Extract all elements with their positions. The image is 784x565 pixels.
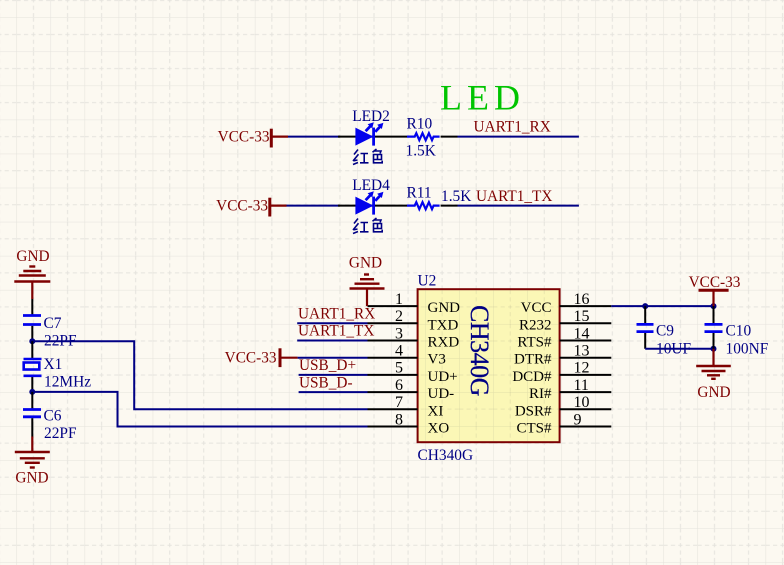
svg-text:DTR#: DTR# (514, 352, 552, 368)
svg-text:GND: GND (15, 470, 48, 487)
svg-text:3: 3 (395, 325, 403, 342)
wire (287, 205, 341, 207)
svg-text:14: 14 (574, 325, 590, 342)
pin 9 (516, 411, 611, 436)
svg-text:C7: C7 (44, 315, 62, 332)
svg-text:VCC-33: VCC-33 (216, 198, 268, 215)
svg-text:R232: R232 (519, 317, 552, 333)
svg-text:USB_D-: USB_D- (299, 374, 353, 391)
svg-text:GND: GND (697, 384, 730, 401)
svg-text:VCC: VCC (521, 300, 552, 316)
svg-text:DSR#: DSR# (515, 403, 552, 419)
capacitor C9 (637, 324, 654, 331)
svg-text:R11: R11 (407, 184, 432, 201)
pin 3 (368, 325, 460, 350)
svg-text:CTS#: CTS# (516, 421, 552, 437)
svg-text:LED: LED (440, 77, 525, 117)
svg-text:11: 11 (574, 377, 589, 394)
junction node (29, 338, 35, 344)
pin 14 (517, 325, 611, 350)
pin 7 (368, 394, 444, 419)
svg-text:GND: GND (428, 300, 461, 316)
svg-text:8: 8 (395, 411, 403, 428)
junction node (29, 389, 35, 395)
ground GND (bottom left) (15, 437, 50, 487)
pin 2 (368, 308, 459, 333)
ground GND (top left) (14, 248, 50, 299)
junction node at C10 (711, 303, 717, 309)
wire / pin to C7 (31, 299, 33, 315)
capacitor C9 pins (644, 306, 646, 349)
svg-text:RI#: RI# (529, 386, 552, 402)
svg-text:UART1_TX: UART1_TX (476, 188, 552, 205)
svg-text:UD-: UD- (428, 386, 455, 402)
pin 6 (368, 377, 455, 402)
svg-text:9: 9 (574, 411, 582, 428)
junction node at C9 (642, 303, 648, 309)
svg-text:LED4: LED4 (352, 177, 390, 194)
wire C9 to C10 bottom (645, 348, 713, 350)
svg-text:RXD: RXD (428, 335, 460, 351)
svg-text:16: 16 (574, 291, 590, 308)
pin C6 bottom (31, 418, 33, 436)
pin 10 (515, 394, 611, 419)
pin 15 (519, 308, 611, 333)
svg-text:V3: V3 (428, 352, 446, 368)
LED D4 pins (338, 205, 407, 207)
svg-text:1: 1 (395, 291, 403, 308)
svg-text:GND: GND (16, 248, 49, 265)
svg-text:12: 12 (574, 360, 590, 377)
LED D2 symbol (355, 122, 383, 145)
power port VCC-33 (right) (689, 274, 741, 306)
svg-text:VCC-33: VCC-33 (218, 129, 270, 146)
svg-text:1.5K: 1.5K (406, 142, 436, 159)
IC U2 CH340G body (418, 289, 560, 442)
svg-text:13: 13 (574, 343, 590, 360)
svg-text:X1: X1 (44, 356, 63, 373)
ground GND (right) (696, 349, 731, 401)
pin 1 (368, 291, 461, 316)
svg-text:UART1_TX: UART1_TX (298, 323, 374, 340)
svg-text:UART1_RX: UART1_RX (298, 306, 375, 323)
svg-text:CH340G: CH340G (465, 305, 494, 396)
pin 11 (529, 377, 611, 402)
capacitor C7 (23, 316, 41, 325)
resistor R11 right pin (441, 205, 458, 207)
svg-text:R10: R10 (407, 115, 433, 132)
junction node (711, 346, 717, 352)
svg-text:C6: C6 (44, 408, 62, 425)
svg-text:RTS#: RTS# (517, 335, 552, 351)
svg-text:12MHz: 12MHz (44, 374, 91, 391)
svg-text:VCC-33: VCC-33 (225, 350, 277, 367)
resistor R11 (407, 202, 440, 209)
pin 13 (514, 343, 611, 368)
pin 12 (512, 360, 611, 385)
svg-text:DCD#: DCD# (512, 369, 552, 385)
wire C7/X1 to XI (32, 341, 367, 409)
svg-text:GND: GND (349, 255, 382, 272)
svg-text:6: 6 (395, 377, 403, 394)
svg-text:2: 2 (395, 308, 403, 325)
pin to C6 (31, 392, 33, 409)
power port VCC-33 (row 1) (218, 129, 288, 148)
svg-text:7: 7 (395, 394, 403, 411)
crystal X1 symbol (24, 359, 42, 376)
LED D2 pins (338, 136, 407, 138)
wire USB_D+ to pin 5 (299, 374, 368, 376)
svg-text:XI: XI (428, 403, 444, 419)
svg-text:C10: C10 (726, 323, 752, 340)
label 红色 (red) hand-drawn glyphs (353, 218, 382, 234)
wire VCC net (pin 16) (611, 305, 713, 307)
svg-text:4: 4 (395, 343, 403, 360)
wire UART1_TX to pin 3 (297, 340, 367, 342)
pin C7 bottom (31, 326, 33, 341)
pin 8 (368, 411, 450, 436)
pin 16 (521, 291, 612, 316)
svg-text:VCC-33: VCC-33 (689, 274, 741, 291)
label 红色 (red) hand-drawn glyphs (353, 149, 382, 165)
capacitor C10 (705, 324, 723, 331)
wire UART1_RX (458, 136, 579, 138)
pin 5 (368, 360, 458, 385)
ground GND (above pin 1) (349, 255, 385, 307)
capacitor C6 (23, 410, 41, 417)
svg-text:5: 5 (395, 360, 403, 377)
power port VCC-33 (pin 4) (225, 348, 298, 367)
capacitor C10 pins (713, 306, 715, 349)
resistor R10 (407, 133, 440, 140)
svg-text:XO: XO (428, 421, 450, 437)
svg-text:USB_D+: USB_D+ (299, 357, 356, 374)
pin 4 (368, 343, 446, 368)
svg-text:LED2: LED2 (352, 108, 390, 125)
svg-text:TXD: TXD (428, 317, 459, 333)
svg-text:C9: C9 (656, 323, 674, 340)
wire USB_D- to pin 6 (299, 391, 368, 393)
power port VCC-33 (row 2) (216, 198, 286, 217)
wire (288, 136, 340, 138)
svg-text:22PF: 22PF (44, 425, 77, 442)
svg-text:CH340G: CH340G (418, 447, 474, 464)
LED D4 symbol (355, 191, 383, 214)
wire to pin 4 (298, 357, 368, 359)
wire UART1_RX to pin 2 (297, 322, 367, 324)
crystal X1 pins (31, 341, 33, 392)
svg-text:UART1_RX: UART1_RX (474, 119, 551, 136)
svg-text:100NF: 100NF (726, 340, 769, 357)
svg-text:10: 10 (574, 394, 590, 411)
svg-text:U2: U2 (418, 273, 437, 290)
svg-text:15: 15 (574, 308, 590, 325)
wire UART1_TX (458, 205, 579, 207)
svg-text:UD+: UD+ (428, 369, 458, 385)
svg-text:1.5K: 1.5K (441, 188, 471, 205)
resistor R10 right pin (441, 136, 458, 138)
wire X1/C6 to XO (32, 392, 367, 427)
